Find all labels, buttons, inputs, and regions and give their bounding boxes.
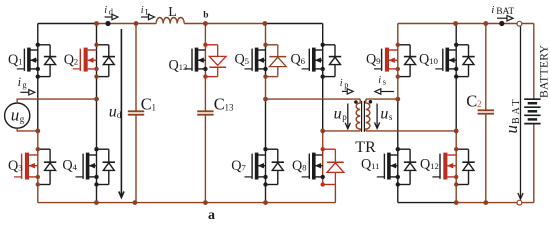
svg-text:u: u — [109, 103, 117, 120]
svg-text:1: 1 — [18, 57, 22, 67]
svg-text:g: g — [20, 114, 25, 124]
svg-text:a: a — [208, 208, 215, 223]
svg-text:BAT: BAT — [511, 97, 522, 124]
svg-text:i: i — [378, 75, 381, 86]
svg-text:C: C — [141, 95, 152, 114]
svg-text:11: 11 — [371, 161, 379, 171]
svg-text:1: 1 — [152, 102, 157, 112]
svg-text:TR: TR — [355, 139, 376, 156]
svg-text:s: s — [383, 77, 386, 86]
svg-text:i: i — [491, 4, 494, 16]
svg-text:p: p — [342, 112, 347, 122]
svg-text:Q: Q — [62, 158, 72, 174]
svg-text:Q: Q — [366, 52, 376, 68]
svg-text:BAT: BAT — [496, 7, 514, 17]
svg-text:p: p — [344, 81, 348, 90]
svg-text:u: u — [11, 106, 19, 125]
svg-text:u: u — [502, 125, 521, 134]
svg-text:L: L — [168, 5, 177, 20]
svg-text:7: 7 — [241, 163, 246, 173]
svg-text:9: 9 — [376, 56, 381, 66]
svg-text:C: C — [466, 91, 477, 110]
svg-text:Q: Q — [419, 52, 429, 68]
svg-text:i: i — [141, 5, 144, 16]
svg-text:Q: Q — [291, 52, 301, 68]
svg-text:8: 8 — [302, 163, 307, 173]
svg-text:i: i — [104, 5, 107, 16]
svg-text:Q: Q — [64, 52, 74, 68]
svg-text:Q: Q — [8, 52, 18, 68]
svg-text:Q: Q — [420, 157, 430, 173]
svg-text:s: s — [389, 112, 393, 122]
svg-text:Q: Q — [231, 158, 241, 174]
svg-text:C: C — [214, 95, 225, 114]
svg-text:Q: Q — [8, 158, 18, 174]
svg-text:3: 3 — [18, 163, 23, 173]
svg-text:BATTERY: BATTERY — [538, 44, 550, 98]
svg-text:2: 2 — [74, 57, 78, 67]
svg-text:u: u — [334, 105, 342, 122]
svg-text:b: b — [203, 11, 208, 21]
svg-text:Q: Q — [169, 58, 179, 74]
svg-text:i: i — [340, 78, 343, 89]
svg-text:Q: Q — [361, 157, 371, 173]
svg-text:d: d — [117, 110, 122, 120]
svg-text:Q: Q — [292, 158, 302, 174]
svg-text:i: i — [18, 75, 22, 89]
svg-text:u: u — [380, 105, 388, 122]
svg-text:6: 6 — [301, 56, 306, 66]
svg-text:12: 12 — [430, 161, 439, 171]
svg-text:4: 4 — [73, 162, 78, 172]
svg-text:2: 2 — [477, 99, 482, 109]
svg-text:10: 10 — [429, 56, 438, 66]
svg-text:13: 13 — [179, 62, 188, 72]
svg-text:Q: Q — [235, 52, 245, 68]
svg-text:13: 13 — [225, 102, 235, 112]
svg-text:5: 5 — [245, 56, 250, 66]
